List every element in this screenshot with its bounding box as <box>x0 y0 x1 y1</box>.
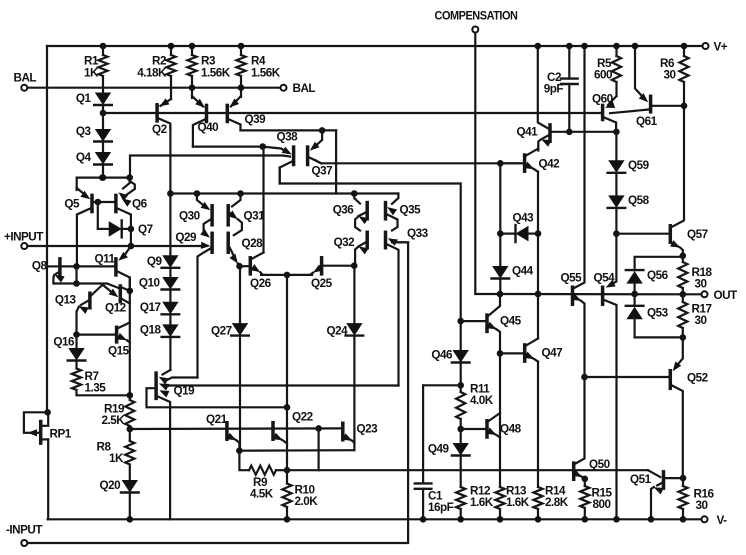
svg-text:4.0K: 4.0K <box>470 394 494 407</box>
transistor Q25 <box>311 258 355 290</box>
svg-text:Q2: Q2 <box>152 123 168 136</box>
wire: Q33 emitter line to Q19 <box>169 384 399 386</box>
svg-text:Q21: Q21 <box>206 413 228 426</box>
transistor Q38 <box>263 131 298 184</box>
svg-text:30: 30 <box>696 499 709 512</box>
svg-text:Q57: Q57 <box>687 228 708 241</box>
svg-text:4.5K: 4.5K <box>250 488 274 501</box>
svg-text:Q5: Q5 <box>64 198 80 211</box>
diode Q10 <box>139 277 179 302</box>
resistor R16 30 <box>678 478 714 522</box>
wire: V- bottom rail <box>48 518 702 520</box>
svg-text:BAL: BAL <box>293 82 316 95</box>
resistor R12 1.6K <box>456 485 494 523</box>
wire: Q44 column <box>497 163 504 237</box>
transistor Q26 <box>236 253 271 291</box>
wire: Q56 top link <box>635 253 687 271</box>
svg-text:Q19: Q19 <box>174 385 196 398</box>
svg-text:9pF: 9pF <box>544 83 564 96</box>
wire: Q38 emitter to Q45 base column <box>280 168 461 322</box>
svg-text:1.56K: 1.56K <box>201 67 231 80</box>
transistor Q12 <box>77 284 130 315</box>
transistor Q30 <box>179 194 212 236</box>
V- terminal <box>702 514 728 527</box>
wire: R13 column <box>497 350 504 487</box>
transistor Q28 <box>228 233 263 266</box>
wire: Q39 emitter line east <box>241 127 337 134</box>
svg-text:Q53: Q53 <box>647 307 669 320</box>
svg-text:-INPUT: -INPUT <box>6 524 43 537</box>
transistor Q32 <box>334 232 369 265</box>
transistor Q31 <box>228 194 265 236</box>
transistor Q40 <box>192 96 219 147</box>
diode Q59 <box>608 159 650 195</box>
svg-text:Q37: Q37 <box>312 165 333 178</box>
svg-text:V+: V+ <box>714 41 728 54</box>
transistor Q35 <box>386 194 422 231</box>
svg-text:COMPENSATION: COMPENSATION <box>435 9 518 23</box>
transistor Q42 <box>500 149 560 172</box>
transistor Q19 <box>147 370 288 519</box>
svg-text:Q1: Q1 <box>76 92 92 105</box>
resistor R14 2.8K <box>533 362 568 523</box>
resistor R11 4.0K <box>456 383 494 444</box>
diode Q53 <box>626 294 686 341</box>
wire: Q21/Q23 emitter link <box>236 447 354 454</box>
transistor Q48 <box>461 413 522 438</box>
capacitor C2 9pF <box>544 43 578 132</box>
COMPENSATION terminal <box>435 9 518 33</box>
svg-text:Q35: Q35 <box>400 204 422 217</box>
transistor Q21 <box>206 413 239 451</box>
transistor Q5 <box>64 188 92 266</box>
BAL terminal left <box>14 72 37 91</box>
V+ terminal <box>703 41 728 54</box>
svg-text:Q41: Q41 <box>517 126 539 139</box>
transistor Q11 <box>95 246 131 291</box>
svg-text:Q44: Q44 <box>512 265 534 278</box>
resistor R9 4.5K <box>239 451 287 501</box>
diode Q16 <box>53 331 85 368</box>
transistor Q29 <box>175 229 212 378</box>
svg-text:2.0K: 2.0K <box>295 495 319 508</box>
svg-text:Q29: Q29 <box>175 231 197 244</box>
transistor Q57 <box>616 106 707 256</box>
transistor Q36 <box>333 194 369 231</box>
resistor R10 2.0K <box>282 484 318 523</box>
svg-text:Q10: Q10 <box>139 277 161 290</box>
+INPUT terminal <box>4 231 44 250</box>
svg-text:Q51: Q51 <box>630 473 652 486</box>
transistor Q45 <box>461 294 522 353</box>
svg-text:Q46: Q46 <box>431 349 453 362</box>
resistor R15 800 <box>580 479 612 523</box>
svg-text:1.6K: 1.6K <box>470 496 494 509</box>
svg-text:4.18K: 4.18K <box>137 67 167 80</box>
transistor Q61 <box>610 43 687 128</box>
resistor R5 600 <box>594 43 621 96</box>
svg-text:Q40: Q40 <box>198 121 220 134</box>
diode Q27 <box>211 266 249 451</box>
svg-text:30: 30 <box>695 314 708 327</box>
svg-text:OUT: OUT <box>714 289 739 302</box>
resistor R4 1.56K <box>236 43 280 97</box>
wire: Q37 emitter east to Q42 base <box>315 160 523 167</box>
diode Q9 <box>147 255 179 277</box>
svg-text:Q58: Q58 <box>628 194 650 207</box>
diode Q4 <box>76 151 112 181</box>
svg-text:Q11: Q11 <box>95 253 116 266</box>
svg-text:Q39: Q39 <box>245 113 267 126</box>
wire: +input line to Q29 base <box>27 242 210 249</box>
transistor Q51 <box>630 470 683 522</box>
svg-text:2.5K: 2.5K <box>102 414 126 427</box>
svg-text:Q50: Q50 <box>589 458 611 471</box>
svg-text:Q42: Q42 <box>539 158 561 171</box>
diode Q20 <box>100 479 139 523</box>
svg-text:Q8: Q8 <box>32 260 48 273</box>
svg-text:800: 800 <box>593 498 612 511</box>
transistor Q22 <box>273 411 314 444</box>
diode Q49 <box>428 443 470 488</box>
wire: Q42/Q47 column <box>535 172 542 339</box>
wire: bias line to Q50/Q51 <box>287 469 648 471</box>
BAL terminal right <box>281 82 316 95</box>
svg-text:Q26: Q26 <box>250 277 272 290</box>
wire: chain from node <box>169 194 171 256</box>
diode Q43 <box>500 212 538 243</box>
svg-text:Q47: Q47 <box>542 347 563 360</box>
svg-text:V-: V- <box>717 514 728 527</box>
svg-text:1.56K: 1.56K <box>251 67 281 80</box>
wire: Q5-Q6 base link <box>92 199 116 229</box>
wire: Q38 line from Q5/Q6 tops <box>130 156 290 178</box>
svg-text:Q27: Q27 <box>211 325 232 338</box>
diode Q24 <box>327 262 364 450</box>
svg-text:Q9: Q9 <box>147 255 163 268</box>
transistor Q55 <box>561 43 588 377</box>
svg-text:Q45: Q45 <box>500 315 522 328</box>
wire: Q26/Q25 emitters junction <box>261 272 312 411</box>
svg-text:Q49: Q49 <box>428 443 450 456</box>
resistor R8 1K <box>97 441 135 481</box>
wire: Q8/Q11 base line <box>62 263 115 287</box>
svg-text:Q55: Q55 <box>561 272 583 285</box>
diode Q46 <box>431 349 469 389</box>
svg-text:Q31: Q31 <box>244 210 266 223</box>
wire: Q23 base tap down <box>318 428 320 470</box>
diode Q56 <box>626 269 669 297</box>
wire: Q58 chain to Q54 <box>609 234 616 286</box>
wire: BAL line <box>27 87 280 89</box>
wire: Q40 emitter line east <box>193 143 266 150</box>
svg-text:Q23: Q23 <box>357 423 379 436</box>
transistor Q50 <box>572 377 610 482</box>
svg-text:Q4: Q4 <box>76 151 92 164</box>
wire: drop to mirror rail <box>335 130 337 193</box>
svg-text:1.35: 1.35 <box>85 382 107 395</box>
resistor R3 1.56K <box>187 43 230 98</box>
svg-text:Q13: Q13 <box>55 294 77 307</box>
transistor Q37 <box>308 130 332 177</box>
svg-text:Q6: Q6 <box>132 198 148 211</box>
wire: -input line up to Q33 base <box>27 242 408 543</box>
svg-text:+INPUT: +INPUT <box>4 231 44 244</box>
wire: Q22 emitter node down <box>284 407 291 483</box>
wire: Q45 base column <box>457 318 464 350</box>
OUT terminal <box>683 289 738 302</box>
svg-text:Q25: Q25 <box>311 277 333 290</box>
svg-text:600: 600 <box>594 69 613 82</box>
svg-text:Q12: Q12 <box>105 302 127 315</box>
transistor Q33 <box>386 227 429 386</box>
svg-text:Q43: Q43 <box>513 212 535 225</box>
svg-text:2.8K: 2.8K <box>545 496 569 509</box>
wire: Q59 chain top <box>615 132 617 161</box>
transistor Q23 <box>342 423 378 444</box>
svg-text:Q18: Q18 <box>140 324 162 337</box>
transistor Q60 <box>592 93 617 132</box>
svg-text:Q60: Q60 <box>592 93 614 106</box>
transistor Q52 <box>581 337 708 481</box>
svg-text:Q59: Q59 <box>628 159 650 172</box>
transistor Q6 (dual collector) <box>116 178 148 229</box>
svg-text:1K: 1K <box>109 452 124 465</box>
svg-text:Q20: Q20 <box>100 479 122 492</box>
transistor Q41 <box>517 43 552 151</box>
svg-text:Q15: Q15 <box>108 345 130 358</box>
transistor Q54 <box>594 272 620 523</box>
wire: Q7 node up/down <box>128 229 135 249</box>
svg-text:Q33: Q33 <box>407 227 429 240</box>
resistor R7 1.35 <box>72 369 130 396</box>
diode Q3 <box>76 113 112 152</box>
wire: V+ top rail <box>47 45 705 47</box>
resistor R6 30 <box>660 43 689 106</box>
svg-text:30: 30 <box>663 69 676 82</box>
svg-text:Q30: Q30 <box>179 210 201 223</box>
svg-text:30: 30 <box>695 278 708 291</box>
svg-text:1K: 1K <box>84 67 99 80</box>
diode Q58 <box>608 194 650 237</box>
resistor R2 4.18K <box>137 43 175 99</box>
transistor Q15 <box>77 323 130 358</box>
svg-text:Q48: Q48 <box>500 423 522 436</box>
wire: Q37 tap down mirror <box>262 147 264 253</box>
transistor Q8 <box>32 259 77 284</box>
diode Q44 <box>492 234 534 298</box>
diode Q7 <box>98 220 153 237</box>
svg-text:Q52: Q52 <box>687 372 709 385</box>
resistor R13 1.6K <box>495 485 529 523</box>
wire: Q41 base line <box>552 129 620 136</box>
wire: mirror rail <box>170 190 398 197</box>
wire: class AB drive line <box>500 293 683 295</box>
resistor R1 1K <box>84 43 108 93</box>
svg-text:Q16: Q16 <box>53 336 75 349</box>
svg-text:16pF: 16pF <box>428 501 454 514</box>
transistor Q47 <box>500 339 562 362</box>
wire: Q2 emitter down to node <box>167 126 174 197</box>
diode Q17 <box>140 301 179 324</box>
wire: Q21/Q22/Q23 base line <box>130 425 341 432</box>
svg-text:Q22: Q22 <box>292 411 314 424</box>
svg-text:Q32: Q32 <box>334 236 356 249</box>
svg-text:Q24: Q24 <box>327 325 349 338</box>
resistor R19 2.5K <box>102 395 135 441</box>
svg-text:Q56: Q56 <box>647 269 669 282</box>
capacitor C1 16pF <box>415 385 461 522</box>
svg-text:1.6K: 1.6K <box>506 496 530 509</box>
svg-text:Q3: Q3 <box>76 125 92 138</box>
transistor Q13 <box>55 284 103 334</box>
svg-text:Q7: Q7 <box>138 223 153 236</box>
wire: bias line Q1 to Q60 base <box>103 112 601 114</box>
svg-text:Q38: Q38 <box>277 131 299 144</box>
wire: Q11 emitter node down <box>127 278 134 399</box>
svg-text:Q61: Q61 <box>636 115 658 128</box>
diode Q18 <box>140 324 179 370</box>
trim pot RP1 <box>24 409 72 443</box>
wire: Q4 node to Q5/Q6 <box>77 174 133 190</box>
diode Q1 <box>76 92 112 116</box>
transistor Q2 <box>152 98 171 136</box>
wire: compensation vertical <box>475 33 500 294</box>
svg-text:Q28: Q28 <box>242 237 264 250</box>
svg-text:BAL: BAL <box>14 72 37 85</box>
wire: left rail <box>47 46 48 519</box>
transistor Q39 <box>227 96 266 130</box>
resistor R17 30 <box>678 294 711 337</box>
resistor R18 30 <box>678 256 712 298</box>
svg-text:RP1: RP1 <box>50 428 72 441</box>
svg-text:Q36: Q36 <box>333 204 355 217</box>
svg-text:Q54: Q54 <box>594 272 616 285</box>
svg-text:Q17: Q17 <box>140 301 161 314</box>
-INPUT terminal <box>6 524 43 547</box>
